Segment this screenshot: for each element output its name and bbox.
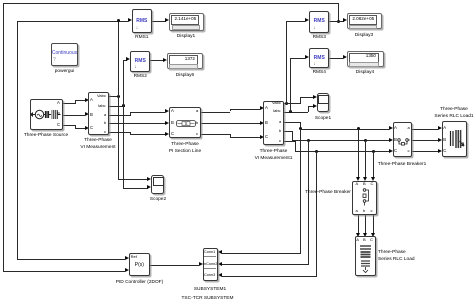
wire: PI b to VI1 B <box>201 123 260 124</box>
node: junction on RMS3 output line <box>337 20 340 23</box>
node: Vabc junction <box>117 95 120 98</box>
node: VI1 Iabc junction <box>289 110 292 113</box>
arrow into PI C <box>165 132 169 136</box>
wire: VI1 c out, jog down <box>283 141 295 142</box>
wire: RMS3 to Display3 <box>329 21 344 22</box>
three-phase PI section line <box>169 107 201 138</box>
wire: RMS3 output feedback loop, top run <box>3 3 339 4</box>
node: bus3 junction at subsystem riser <box>315 150 318 153</box>
wire: Scope1 bottom riser <box>308 106 309 112</box>
wire: RMS2 to Display6 <box>150 60 163 61</box>
arrow into VI B <box>85 112 89 116</box>
arrow into Breaker1 A <box>389 126 393 130</box>
arrow into Scope1 bottom <box>313 104 317 108</box>
wire: subsystem Conn2 run <box>222 264 310 265</box>
wire: bus line 1 (phase A) to Breaker1 <box>300 129 389 130</box>
arrow into VI C <box>85 126 89 130</box>
PID controller (2DOF) <box>129 253 151 276</box>
wire: source C to VI C <box>63 125 75 126</box>
wire: VI1 Iabc vertical to RMS4 <box>290 58 291 113</box>
annotation: TSC-TCR SUBSYSTEM <box>180 295 235 302</box>
arrow into Scope2 top <box>147 177 151 181</box>
arrow into PID input 2 <box>125 268 129 272</box>
wire: VI1 a out, drop to bus 1 <box>283 122 301 123</box>
wire: PI c to VI1 C <box>201 134 230 135</box>
arrow into RMS4 <box>305 55 309 59</box>
wire: RMS4 to Display4 <box>329 58 343 59</box>
RMS1 <box>132 9 152 33</box>
wire: VI a to PI line A <box>108 115 130 116</box>
wire: subsystem riser phase C <box>316 151 317 276</box>
node: junction where Vabc line meets RMS1 input <box>117 19 120 22</box>
wire: VI1 b out, jog down, drop to subsystem <box>283 131 292 132</box>
arrow into RMS3 <box>305 18 309 22</box>
wire: run into RMS4 <box>290 58 305 59</box>
arrow into VI A <box>85 98 89 102</box>
wire: left vertical to PID Ref <box>17 21 18 259</box>
wire: Scope1 top riser <box>300 97 301 104</box>
three-phase series RLC load (shunt) <box>355 236 377 276</box>
wire: subsystem riser phase B <box>308 140 309 264</box>
wire: subsystem Conn1 run <box>222 253 302 254</box>
arrow into Breaker1 B <box>389 138 393 142</box>
wire: subsystem Conn3 run <box>222 276 318 277</box>
wire: Vabc stub from VI Measurement <box>108 96 119 97</box>
wire: RMS1 to Display1 <box>152 21 166 22</box>
wire: drop to Three-Phase Breaker port A <box>358 129 359 178</box>
node: VI1 Vabc junction <box>285 102 288 105</box>
arrow into RMS2 <box>126 57 130 61</box>
wire: Breaker bottom a to RLC Load top A <box>358 215 359 234</box>
three-phase series RLC load1 <box>442 121 467 157</box>
wire: drop to Three-Phase Breaker port B <box>365 140 366 177</box>
arrow into VI1 B <box>260 121 264 125</box>
RMS3 <box>309 11 329 33</box>
arrow into RMS1 <box>128 18 132 22</box>
wire: Iabc vertical bus (up to RMS2, down to Scope2) <box>123 60 124 189</box>
three-phase source <box>30 99 64 130</box>
svg-text:π: π <box>184 121 187 126</box>
wire: Breaker bottom c to RLC Load top C <box>373 215 374 234</box>
display3 <box>347 13 382 30</box>
three-phase VI measurement <box>88 92 109 135</box>
scope2 <box>151 175 164 195</box>
arrow into Breaker1 C <box>389 149 393 153</box>
node: bus2 junction at subsystem riser <box>307 139 310 142</box>
node: bus3 junction at breaker drop <box>372 150 375 153</box>
wire: Breaker1 a to RLC Load1 A <box>412 129 438 130</box>
arrow into PID Ref <box>125 256 129 260</box>
RMS4 <box>309 48 329 68</box>
three-phase breaker (shunt) <box>352 181 377 215</box>
scope1 <box>317 93 329 112</box>
wire: Breaker1 b to RLC Load1 B <box>412 140 438 141</box>
wire: feedback loop, left vertical run <box>3 3 4 272</box>
wire: VI b to PI line B <box>108 123 165 124</box>
arrow into VI1 C <box>260 135 264 139</box>
three-phase breaker1 <box>393 122 413 157</box>
wire: Vabc top run to RMS1 and to left loop <box>17 21 128 22</box>
wire: feedback loop, right drop to RMS3 output junction <box>338 3 339 22</box>
display4 <box>347 51 384 67</box>
powergui block <box>51 43 78 66</box>
wire: Breaker1 c to RLC Load1 C <box>412 151 438 152</box>
display1 <box>169 13 204 31</box>
wire: VI1 Iabc stub and run to Scope1 riser <box>283 112 308 113</box>
wire: Iabc run to RMS2 input <box>123 60 127 61</box>
wire: Iabc stub from VI Measurement <box>108 106 125 107</box>
node: bus1 junction at riser <box>299 127 302 130</box>
wire: run into RMS3 <box>286 21 305 22</box>
wire: PI a to VI1 A <box>201 112 230 113</box>
arrow into Scope2 bottom <box>147 185 151 189</box>
wire: bus line 3 (phase C) to Breaker1 <box>295 151 390 152</box>
arrow into PI B <box>165 121 169 125</box>
wire: source A to VI A <box>63 103 75 104</box>
RMS2 <box>130 51 150 73</box>
node: Iabc junction <box>122 104 125 107</box>
wire: VI c to PI line C <box>108 132 130 133</box>
arrow into VI1 A <box>260 106 264 110</box>
wire: VI1 Vabc stub and run to Scope1 riser <box>283 103 300 104</box>
wire: Breaker bottom b to RLC Load top B <box>365 215 366 234</box>
node: bus1 junction at breaker drop <box>357 127 360 130</box>
wire: source B to VI B <box>63 115 85 116</box>
wire: Iabc run into Scope2 bottom input <box>123 188 148 189</box>
wire: VI1 Vabc vertical to RMS3 <box>286 21 287 104</box>
wire: PID output to SUBSYSTEM1 input <box>150 265 199 266</box>
wire: bus line 2 (phase B) to Breaker1 <box>292 140 389 141</box>
three-phase VI measurement1 <box>263 101 284 145</box>
wire: Vabc vertical bus (up to RMS1, down to Scope2) <box>118 21 119 180</box>
SUBSYSTEM1 <box>203 248 218 281</box>
node: bus2 junction at breaker drop <box>364 139 367 142</box>
display6 <box>167 53 203 69</box>
arrow into Scope1 top <box>313 95 317 99</box>
wire: run to PID Ref input <box>17 259 125 260</box>
wire: feedback loop, bottom run to PID input 2 <box>3 271 126 272</box>
arrow into PI A <box>165 109 169 113</box>
wire: drop to Three-Phase Breaker port C <box>373 151 374 178</box>
wire: Vabc run into Scope2 top input <box>118 179 148 180</box>
